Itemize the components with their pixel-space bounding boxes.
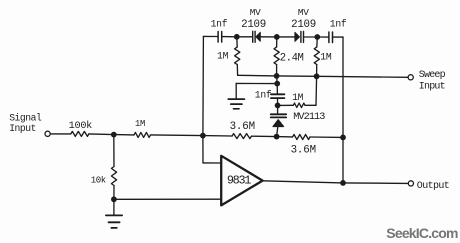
wire: ground branch horizontal (236, 82, 277, 84)
wire: top bus corner to capacitor C1 (203, 35, 218, 37)
resistor 3.6M (right) (291, 135, 316, 157)
wire: C1 to node F1 (222, 36, 237, 38)
wire: node J down to capacitor C3 (276, 84, 278, 94)
wire: node B down to inverting input (202, 136, 204, 163)
wire: 10k to node G (113, 186, 115, 200)
wire: C3 to node K (277, 98, 279, 105)
node F2 (junction D1 / D2 / 2.4M) (274, 34, 280, 40)
node E (output junction) (340, 180, 346, 186)
varactor D3 MV2113 (bars top, triangle pointing up) (271, 105, 326, 126)
label: Sweep Input (419, 70, 446, 92)
op-amp 9831 (221, 156, 262, 206)
svg-text:Signal: Signal (9, 112, 42, 123)
svg-text:SeekIC.com: SeekIC.com (386, 225, 458, 241)
svg-text:MV: MV (250, 7, 261, 18)
ground (upper, left of C3) (228, 99, 244, 109)
resistor 100k (69, 120, 93, 136)
node H1 (junction 2.4M / cap column / sweep bus) (274, 73, 280, 79)
svg-text:2109: 2109 (241, 19, 266, 31)
node: Sweep Input terminal (408, 75, 413, 80)
wire: right column top (C2 corner down to node D) (342, 37, 344, 137)
svg-text:1nf: 1nf (255, 89, 272, 100)
resistor 1M (right vertical, under node F3) (314, 37, 332, 76)
svg-text:9831: 9831 (227, 173, 251, 187)
wire: signal terminal to R 100k (50, 133, 71, 135)
wire: 100k to node A (89, 133, 114, 136)
svg-text:10k: 10k (91, 175, 106, 185)
resistor 3.6M (left) (230, 121, 255, 138)
wire: node F3 to capacitor C2 (317, 36, 329, 38)
capacitor C3 1nf (vertical) (255, 89, 285, 100)
resistor 1M (horizontal, across MV2113) (292, 92, 305, 108)
node D (junction right column / main bus) (340, 135, 346, 141)
node K (junction C3 / MV2113 / 1M horizontal) (275, 103, 281, 109)
wire: op-amp output to node E (263, 181, 343, 183)
svg-text:1M: 1M (292, 92, 304, 103)
capacitor C2 1nf (top right) (329, 18, 347, 42)
node G (junction 10k / op-amp + / ground) (111, 196, 117, 202)
wire: into op-amp inverting input (203, 162, 221, 164)
wire: node K to 1M horizontal (278, 104, 294, 106)
svg-text:1nf: 1nf (330, 18, 347, 29)
node: Signal Input terminal (45, 131, 50, 136)
node J (junction ground branch / C3) (274, 81, 280, 87)
wire: node G down to ground (113, 199, 115, 215)
node B (junction feedback column / 3.6M) (200, 133, 206, 139)
wire: 1M to node B (151, 134, 203, 137)
wire: node H2 crossing right column to sweep terminal (317, 76, 409, 77)
wire: C2 to right column corner (333, 36, 344, 38)
wire: node F1 to varactor D1 (237, 36, 253, 38)
resistor 2.4M (vertical, under node F2) (274, 37, 304, 76)
svg-text:MV: MV (298, 7, 309, 18)
svg-text:2.4M: 2.4M (280, 53, 304, 65)
svg-text:1nf: 1nf (211, 18, 228, 29)
wire: node H1 down to node J (276, 76, 279, 84)
wire: node H1 to node H2 (277, 75, 317, 77)
node C (junction MV2113 / 3.6M / 3.6M) (274, 134, 280, 140)
resistor 1M (left vertical, under node F1) (217, 37, 240, 76)
svg-text:1M: 1M (135, 119, 145, 129)
node H2 (junction 1M vertical / 1M horizontal / sweep bus) (314, 73, 320, 79)
wire: 1M horizontal right, corner up to node H2 (305, 104, 316, 106)
svg-text:100k: 100k (69, 120, 93, 132)
svg-text:MV2113: MV2113 (293, 112, 325, 123)
wire: node C to 3.6M right (277, 136, 293, 138)
wire: D2 to node F3 (304, 36, 318, 38)
svg-text:Input: Input (9, 123, 36, 134)
node F1 (junction C1 / D1 / 1M) (234, 34, 240, 40)
label: Signal Input (9, 112, 42, 134)
node: Output terminal (408, 181, 413, 186)
svg-text:2109: 2109 (291, 19, 316, 31)
wire: D3 down to node C (277, 127, 278, 137)
wire: node A down to 10k (113, 135, 115, 167)
varactor D2 MV2109 (triangle pointing right, bars right) (291, 7, 316, 43)
wire: node B to 3.6M left (203, 135, 232, 137)
varactor D1 MV2109 (bars left, triangle pointing left) (241, 7, 266, 42)
node F3 (junction D2 / C2 / 1M) (314, 34, 320, 40)
svg-text:1M: 1M (217, 51, 229, 62)
svg-text:3.6M: 3.6M (291, 145, 316, 157)
resistor 1M (series input) (134, 119, 151, 137)
svg-text:3.6M: 3.6M (230, 121, 255, 133)
capacitor C1 1nf (top left) (211, 18, 228, 42)
wire: node F2 to varactor D2 (277, 36, 295, 38)
wire: 3.6M right to node D (310, 136, 343, 138)
wire: D1 to node F2 (260, 36, 277, 38)
svg-text:Output: Output (417, 181, 449, 192)
wire: node G to op-amp noninverting input (114, 198, 221, 200)
wire: node E to output terminal (343, 182, 408, 185)
svg-text:Sweep: Sweep (419, 70, 446, 81)
wire: 3.6M left to node C (252, 135, 277, 137)
wire: feedback column (top-left corner down to node B) (202, 36, 205, 135)
wire: sweep bus left (1M bottom corner to node H1) (238, 74, 277, 77)
ground (below 10k) (106, 215, 122, 228)
wire: ground branch down (235, 83, 237, 99)
svg-text:Input: Input (419, 82, 445, 93)
node A (junction 100k / 1M / 10k) (111, 132, 117, 138)
resistor 10k (91, 167, 117, 186)
svg-text:1M: 1M (320, 52, 332, 63)
wire: right column node D to node E (342, 137, 344, 183)
wire: node A to 1M (114, 134, 134, 136)
